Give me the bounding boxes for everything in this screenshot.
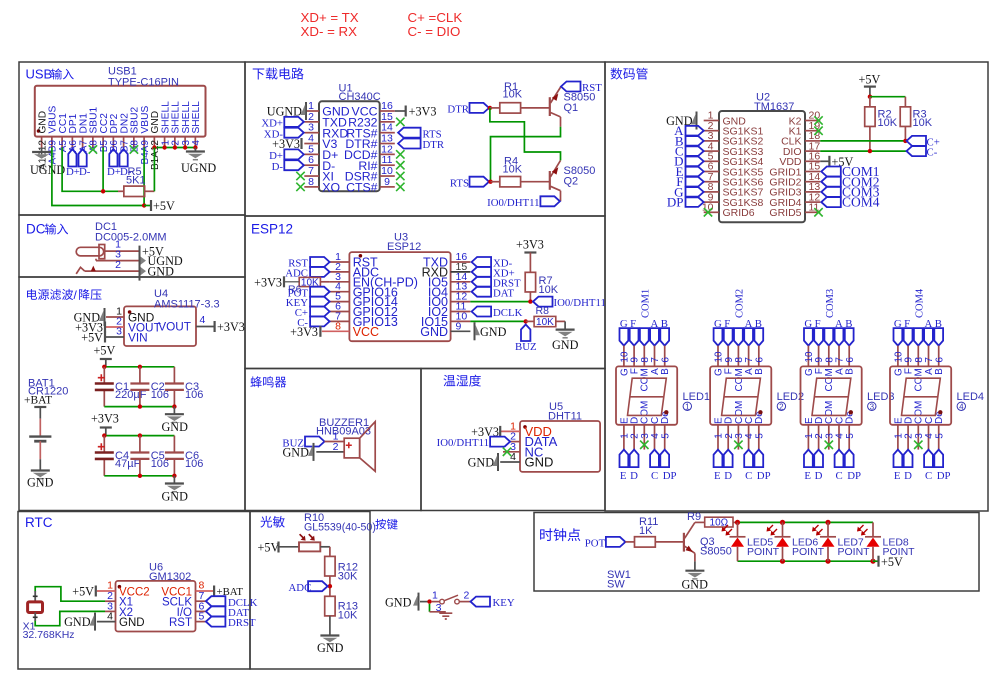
- port IO0/DHT11 at Q2 emitter: [540, 196, 560, 206]
- USB1 pin B8 SBU2: [133, 137, 135, 148]
- pin-1 marker U3: [359, 254, 363, 258]
- U2 pin 6 SG1KS5: [704, 171, 719, 173]
- svg-text:4: 4: [510, 451, 516, 463]
- display LED1 body: [616, 366, 677, 424]
- display LED2 digit figure: [722, 378, 761, 415]
- ground GND at U4 pin1: [104, 308, 106, 326]
- capacitor C3 106: [173, 367, 175, 384]
- U6 pin 2 X1: [105, 600, 116, 602]
- svg-text:10K: 10K: [536, 317, 554, 328]
- port COM3: [821, 187, 841, 197]
- svg-text:COM4: COM4: [842, 195, 880, 210]
- display LED4 bottom ports: [897, 425, 899, 450]
- U3 pin 12 IO0: [451, 301, 471, 303]
- U1 pin 9 CTS#: [380, 186, 395, 188]
- port COM4: [821, 197, 841, 207]
- ground UGND at shell: [194, 148, 196, 152]
- junction +5V: [142, 203, 146, 207]
- title clock dots: [540, 528, 580, 541]
- svg-text:+5V: +5V: [881, 555, 903, 569]
- U2 pin 5 SG1KS4: [704, 160, 719, 162]
- U2 pin 9 SG1KS8: [704, 201, 719, 203]
- power +3V3 at U4 pin2: [104, 322, 106, 333]
- LED6 POINT: [780, 520, 785, 525]
- svg-text:DCLK: DCLK: [493, 307, 523, 319]
- svg-text:CTS#: CTS#: [346, 180, 378, 194]
- svg-text:+3V3: +3V3: [254, 275, 282, 289]
- U3 pin 7 GPIO13: [330, 320, 350, 322]
- title power filter: [27, 289, 73, 300]
- svg-text:C: C: [836, 470, 843, 482]
- svg-text:2: 2: [464, 590, 470, 602]
- junction ADC node: [328, 584, 332, 588]
- svg-text:4: 4: [191, 140, 202, 146]
- svg-text:ESP12: ESP12: [387, 241, 421, 253]
- svg-text:COM4: COM4: [914, 288, 925, 318]
- wire CC2 down: [102, 148, 104, 192]
- U3 pin 13 IO4: [451, 291, 471, 293]
- svg-text:XD+ = TX: XD+ = TX: [301, 10, 359, 25]
- no-connect X at U5 pin3: [503, 448, 511, 456]
- title button: [375, 519, 397, 530]
- junction IO0/R7: [528, 299, 532, 303]
- resistor R11 1K: [625, 541, 634, 543]
- U2 pin 10 GRID6: [704, 211, 719, 213]
- title digit display: [610, 68, 647, 80]
- connector USB1 TYPE-C16PIN body: [35, 86, 206, 137]
- svg-text:C-: C-: [927, 147, 938, 159]
- svg-text:3: 3: [436, 602, 442, 614]
- port C+ at U3: [310, 307, 330, 317]
- capacitor C6 106: [173, 436, 175, 453]
- svg-text:D+: D+: [107, 166, 121, 178]
- power +5V flag: [144, 205, 150, 207]
- no-connect X at U1 XO: [296, 183, 304, 191]
- pin-1 marker U5: [523, 425, 527, 429]
- IC U2 TM1637 body: [719, 111, 805, 222]
- wire cap bus bottom: [104, 406, 174, 408]
- svg-text:+3V3: +3V3: [217, 320, 245, 334]
- svg-text:+5V: +5V: [72, 585, 94, 599]
- port DP segment: [686, 197, 704, 207]
- port G segment: [686, 187, 704, 197]
- port BUZ at buzzer: [305, 437, 325, 447]
- U1 pin 8 XO: [304, 186, 319, 188]
- svg-text:3: 3: [870, 402, 875, 411]
- no-connect X at U1 XI: [296, 172, 304, 180]
- U2 pin 3 SG1KS2: [704, 140, 719, 142]
- display LED4 digit figure: [902, 378, 941, 415]
- USB1 pin A8 SBU1: [92, 137, 94, 148]
- junction C1 top: [102, 365, 106, 369]
- U1 pin 4 V3: [304, 143, 319, 145]
- svg-text:RTS: RTS: [450, 177, 469, 189]
- U3 pin 3 EN(CH-PD): [330, 281, 350, 283]
- USB1 pin A4B9 VBUS: [51, 137, 53, 148]
- junction IO15/R8: [524, 319, 528, 323]
- svg-text:DAT: DAT: [493, 287, 514, 299]
- U5 pin 4 GND: [500, 461, 520, 463]
- power +5V at U4 pin3: [104, 332, 106, 343]
- power +3V3 at U1 VCC: [395, 110, 406, 112]
- display LED3 bottom ports: [807, 425, 809, 450]
- port IO0/DHT11 at U5: [490, 437, 510, 447]
- svg-text:DP: DP: [757, 470, 771, 482]
- capacitor C5 106: [139, 436, 141, 453]
- svg-text:DTR: DTR: [423, 139, 445, 151]
- no-connect X at U1 pin 9: [396, 183, 404, 191]
- svg-text:GND: GND: [682, 578, 709, 592]
- junction C2 bottom: [138, 404, 142, 408]
- svg-text:6: 6: [845, 357, 856, 363]
- U2 pin 12 GRID4: [805, 201, 820, 203]
- transistor Q1 S8050: [549, 97, 551, 116]
- svg-text:POT: POT: [585, 537, 606, 549]
- U2 pin 4 SG1KS3: [704, 150, 719, 152]
- svg-text:32.768KHz: 32.768KHz: [23, 629, 75, 641]
- svg-text:D: D: [904, 470, 912, 482]
- port KEY at U3: [310, 297, 330, 307]
- U1 pin 13 DTR#: [380, 143, 395, 145]
- section box download circuit: [245, 62, 605, 216]
- wire IO15 net: [470, 320, 525, 322]
- no-connect X at U2 K2: [814, 116, 822, 124]
- U5 pin 2 DATA: [510, 441, 520, 443]
- ground GND at Q3: [694, 561, 696, 570]
- U6 pin 6 I/O: [196, 610, 206, 612]
- IC U3 ESP12 body: [349, 252, 450, 341]
- title temp-humidity: [443, 375, 480, 387]
- title photoresistor: [260, 516, 284, 528]
- USB1 pin A5 CC1: [61, 137, 63, 148]
- svg-text:30K: 30K: [338, 571, 358, 583]
- svg-text:10K: 10K: [913, 117, 933, 129]
- resistor R5 5K1: [118, 190, 124, 192]
- U5 pin 3 NC: [503, 451, 520, 453]
- U1 pin 16 VCC: [380, 110, 395, 112]
- svg-text:GND: GND: [468, 456, 495, 470]
- display LED3 digit figure: [812, 378, 851, 415]
- U4 pin 4 VOUT right: [196, 326, 214, 328]
- LED8 POINT: [870, 559, 875, 564]
- U4 pin 2 VOUT: [106, 326, 124, 328]
- svg-text:D: D: [724, 470, 732, 482]
- USB1 pin B6 DP2: [112, 137, 114, 148]
- svg-text:C: C: [745, 470, 752, 482]
- svg-text:DC005-2.0MM: DC005-2.0MM: [95, 232, 167, 244]
- svg-text:5: 5: [660, 433, 671, 439]
- wire +3V3 cap bus top: [104, 435, 174, 437]
- port DAT at U6: [206, 606, 226, 616]
- transistor Q2 S8050: [549, 171, 551, 190]
- U2 pin 16 VDD: [805, 160, 820, 162]
- svg-text:5K1: 5K1: [126, 175, 146, 187]
- svg-text:GND: GND: [552, 338, 579, 352]
- U3 pin 5 GPIO14: [330, 301, 350, 303]
- port DCLK at U3 IO2: [472, 307, 492, 317]
- LED7 POINT: [825, 520, 830, 525]
- svg-text:6: 6: [660, 357, 671, 363]
- svg-text:D: D: [815, 470, 823, 482]
- svg-text:TYPE-C16PIN: TYPE-C16PIN: [108, 77, 179, 89]
- svg-text:GND: GND: [317, 641, 344, 655]
- port KEY: [471, 597, 491, 607]
- U2 pin 15 GRID1: [805, 171, 820, 173]
- svg-text:10K: 10K: [503, 164, 523, 176]
- port XD- at U1 RXD: [284, 128, 304, 138]
- junction CLK/R3: [903, 139, 907, 143]
- svg-text:6: 6: [754, 357, 765, 363]
- svg-text:5: 5: [934, 433, 945, 439]
- U2 pin 1 GND: [704, 120, 719, 122]
- port D- (pair 2): [120, 149, 128, 167]
- junction DIO/R2: [868, 149, 872, 153]
- U2 pin 2 SG1KS1: [704, 130, 719, 132]
- svg-text:1: 1: [685, 402, 690, 411]
- ground UGND at USB GND pin: [41, 148, 43, 153]
- svg-text:RTC: RTC: [25, 515, 53, 530]
- port C+: [907, 136, 927, 146]
- display LED3 decimal point: [849, 410, 853, 414]
- wire DIO net: [820, 150, 906, 152]
- port RTS at U1 RTS#: [398, 128, 421, 138]
- svg-text:IO0/DHT11: IO0/DHT11: [554, 297, 606, 309]
- ground UGND at DC1: [141, 257, 147, 265]
- svg-text:VCC: VCC: [353, 325, 379, 339]
- svg-text:+3V3: +3V3: [91, 412, 119, 426]
- U1 pin 14 RTS#: [380, 132, 395, 134]
- svg-text:B: B: [754, 368, 765, 375]
- port XD- at U3 TXD: [472, 257, 492, 267]
- svg-text:+BAT: +BAT: [24, 395, 52, 407]
- svg-text:E: E: [804, 470, 811, 482]
- svg-text:GND: GND: [385, 596, 412, 610]
- no-connect X at U1 pin 11: [396, 161, 404, 169]
- svg-text:1K: 1K: [639, 525, 653, 537]
- display LED1 decimal point: [664, 410, 668, 414]
- no-connect X on SBU2: [130, 145, 138, 153]
- port COM1: [821, 167, 841, 177]
- U3 pin 11 IO2: [451, 311, 471, 313]
- U3 pin 8 VCC: [322, 330, 350, 332]
- svg-text:GND: GND: [420, 325, 448, 339]
- svg-text:VIN: VIN: [128, 331, 148, 345]
- capacitor C2 106: [139, 367, 141, 384]
- svg-text:3: 3: [116, 326, 122, 338]
- svg-text:AMS1117-3.3: AMS1117-3.3: [154, 299, 220, 311]
- svg-text:4: 4: [107, 611, 113, 623]
- power +3V3 at U1 V3: [300, 138, 302, 149]
- svg-text:GND: GND: [480, 325, 507, 339]
- svg-text:Q1: Q1: [564, 102, 579, 114]
- svg-text:+5V: +5V: [81, 331, 103, 345]
- svg-text:Q2: Q2: [564, 176, 579, 188]
- crystal X1 32.768KHz: [34, 591, 36, 602]
- resistor R4 10K: [491, 181, 500, 183]
- svg-text:GRID5: GRID5: [769, 207, 801, 219]
- USB1 pin B5 CC2: [102, 137, 104, 148]
- port D+ (pair 2): [109, 149, 117, 167]
- port ADC at U3: [310, 267, 330, 277]
- ground GND at U3 pin9: [474, 322, 476, 340]
- svg-text:+5V: +5V: [94, 344, 116, 358]
- svg-text:2: 2: [115, 259, 121, 271]
- port DCLK at U6: [206, 596, 226, 606]
- svg-text:4: 4: [959, 402, 964, 411]
- svg-text:E: E: [620, 470, 627, 482]
- svg-text:ESP12: ESP12: [251, 222, 293, 237]
- svg-text:SHELL: SHELL: [191, 101, 202, 134]
- svg-text:9: 9: [384, 176, 390, 188]
- junction C4 top: [102, 433, 106, 437]
- section box temp-humidity: [421, 369, 605, 511]
- junction C5 top: [138, 433, 142, 437]
- port D segment: [686, 157, 704, 167]
- display LED3 body: [801, 366, 862, 424]
- resistor R2 10K: [869, 97, 871, 107]
- ground GND at R13: [329, 616, 331, 636]
- section box photoresistor: [250, 512, 370, 670]
- section box USB input: [19, 62, 245, 215]
- section box ESP12: [245, 216, 605, 369]
- svg-text:BUZ: BUZ: [515, 341, 537, 353]
- ground GND at U5: [497, 453, 499, 471]
- svg-text:COM1: COM1: [640, 289, 651, 318]
- title buzzer: [250, 376, 286, 387]
- wire IO0 net: [470, 301, 533, 303]
- wire R10 to R12: [320, 546, 330, 548]
- svg-text:UGND: UGND: [30, 163, 65, 177]
- svg-text:8: 8: [335, 320, 341, 332]
- capacitor C4 47uF: [103, 436, 105, 453]
- port D- at U1: [284, 160, 304, 170]
- svg-text:GND: GND: [525, 455, 554, 470]
- svg-text:5: 5: [199, 611, 205, 623]
- port E segment: [686, 167, 704, 177]
- port DRST at U6: [206, 617, 226, 627]
- U1 pin 3 RXD: [304, 132, 319, 134]
- svg-text:R8: R8: [536, 305, 550, 317]
- U2 pin 20 K2: [805, 120, 820, 122]
- USB1 pin B7 DN2: [123, 137, 125, 148]
- junction +5V node: [868, 95, 872, 99]
- svg-text:4: 4: [200, 314, 206, 326]
- port RST at Q1: [561, 82, 581, 92]
- resistor R3 10K: [904, 97, 906, 107]
- section box buzzer: [245, 369, 421, 511]
- svg-text:DTR: DTR: [447, 104, 469, 116]
- U2 pin 18 CLK: [805, 140, 820, 142]
- svg-text:DC: DC: [26, 222, 46, 237]
- IC U4 AMS1117-3.3 body: [124, 306, 196, 346]
- svg-text:+5V: +5V: [153, 199, 175, 213]
- U6 pin 3 X2: [105, 610, 116, 612]
- svg-text:9: 9: [456, 320, 462, 332]
- svg-text:DP: DP: [663, 470, 677, 482]
- svg-text:POINT: POINT: [838, 546, 871, 558]
- svg-text:GM1302: GM1302: [149, 571, 191, 583]
- section box digit display: [605, 62, 988, 511]
- U1 pin 15 R232: [380, 121, 395, 123]
- buzzer BUZZER1 pin1: [325, 441, 345, 443]
- junction C5 bottom: [138, 474, 142, 478]
- U2 pin 14 GRID2: [805, 181, 820, 183]
- U5 pin 1 VDD: [500, 430, 520, 432]
- svg-text:B: B: [845, 368, 856, 375]
- ground GND at R8: [564, 321, 566, 329]
- port A segment: [686, 126, 704, 136]
- U2 pin 19 K1: [805, 130, 820, 132]
- wire CC1 to R5: [62, 148, 118, 192]
- IC U5 DHT11 body: [520, 421, 600, 472]
- U2 pin 8 SG1KS7: [704, 191, 719, 193]
- svg-text:C: C: [925, 470, 932, 482]
- junction SW1 pin1: [427, 599, 431, 603]
- svg-text:GND: GND: [283, 446, 310, 460]
- svg-text:+3V3: +3V3: [290, 325, 318, 339]
- junction shell bus: [183, 145, 187, 149]
- photoresistor R10 body: [299, 542, 320, 551]
- U1 pin 11 RI#: [380, 164, 395, 166]
- power +5V at U6: [95, 586, 97, 597]
- wire LED top bus: [738, 521, 874, 523]
- U1 pin 2 TXD: [304, 121, 319, 123]
- no-connect X at U1 pin 10: [396, 172, 404, 180]
- U3 pin 1 RST: [330, 261, 350, 263]
- port DAT at U3 IO4: [472, 287, 492, 297]
- USB1 pin A1B12 GND: [41, 137, 43, 148]
- svg-text:5: 5: [845, 433, 856, 439]
- section box RTC: [18, 512, 250, 670]
- svg-text:+5V: +5V: [859, 73, 881, 87]
- wire +5V cap bus top: [104, 366, 174, 368]
- ground GND cap rail 1: [173, 407, 175, 415]
- IC U1 CH340C body: [319, 101, 380, 191]
- svg-text:D-: D-: [79, 166, 91, 178]
- U1 pin 6 D-: [304, 164, 319, 166]
- svg-text:RST: RST: [582, 82, 602, 94]
- svg-text:CH340C: CH340C: [339, 91, 381, 103]
- junction C6 bottom: [172, 474, 176, 478]
- U2 pin 7 SG1KS6: [704, 181, 719, 183]
- U2 pin 17 DIO: [805, 150, 820, 152]
- svg-text:1: 1: [432, 590, 438, 602]
- U6 pin 8 VCC1: [196, 590, 214, 592]
- svg-text:GND: GND: [119, 617, 145, 629]
- svg-text:S8050: S8050: [700, 546, 732, 558]
- no-connect X at U2 K1: [814, 127, 822, 135]
- power +3V3 at U4 pin4: [214, 321, 216, 332]
- U3 pin 10 IO15: [451, 320, 471, 322]
- resistor R13 10K: [325, 596, 335, 616]
- svg-text:5: 5: [754, 433, 765, 439]
- switch SW1: [432, 601, 440, 603]
- USB1 pin A7 DN1: [82, 137, 84, 148]
- svg-text:8: 8: [308, 176, 314, 188]
- svg-text:IO0/DHT11: IO0/DHT11: [437, 437, 489, 449]
- svg-text:COM3: COM3: [825, 289, 836, 318]
- U6 pin 1 VCC2: [97, 590, 116, 592]
- wire R12 to R13: [329, 576, 331, 597]
- resistor R1 10K: [490, 107, 500, 109]
- svg-text:C: C: [651, 470, 658, 482]
- svg-text:GND: GND: [27, 476, 54, 490]
- svg-text:DP: DP: [847, 470, 861, 482]
- svg-text:IO0/DHT11: IO0/DHT11: [487, 197, 539, 209]
- port IO0/DHT11 at U3: [533, 297, 553, 307]
- wire X2 to crystal: [35, 611, 105, 625]
- svg-text:10K: 10K: [503, 89, 523, 101]
